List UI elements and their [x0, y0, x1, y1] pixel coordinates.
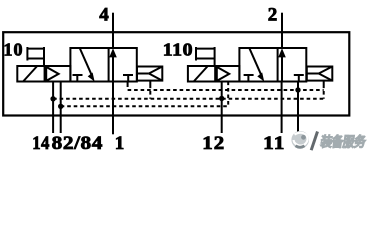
valve V110 right position: blocked port T [294, 74, 304, 76]
port 14 line [52, 82, 54, 134]
valve V110 left position: blocked port T [244, 74, 254, 76]
pilot dashed row 2 [53, 98, 324, 100]
label 12 [202, 133, 225, 154]
valve V110 air pilot return [307, 67, 333, 81]
port 1 line [112, 82, 114, 135]
svg-text:10: 10 [4, 40, 24, 60]
node on port 82/84 line [58, 104, 63, 109]
valve V110 left position: diagonal arrow [249, 48, 261, 76]
valve V10 solenoid coil [17, 66, 44, 82]
valve V10 air pilot return [137, 67, 162, 81]
valve V110 supply line [281, 82, 283, 134]
svg-text:2: 2 [268, 5, 278, 26]
valve V10 left position: diagonal arrow [80, 48, 92, 76]
pilot line V10 return drop [149, 81, 151, 85]
label 14 [32, 132, 50, 153]
valve V110 manual override [195, 47, 197, 61]
svg-text:12: 12 [202, 133, 225, 154]
valve V110 body [239, 48, 306, 82]
valve V10 left position: blocked port T [73, 74, 83, 76]
valve V110 solenoid coil [188, 66, 215, 82]
label 11 [263, 133, 285, 154]
valve V10 right position: blocked port T [123, 74, 133, 76]
svg-text:82/84: 82/84 [52, 133, 103, 154]
valve V110 pilot box [215, 66, 239, 82]
pilot dashed row 1 [128, 89, 324, 91]
svg-text:4: 4 [99, 5, 109, 26]
pilot dashed row 3 [61, 105, 229, 107]
pilot line V110 return drop [323, 81, 325, 85]
label 82/84 [52, 133, 103, 154]
port 2 line [281, 13, 283, 48]
valve V10 right position: flow arrow up [112, 55, 114, 82]
watermark logo [291, 131, 367, 150]
port 11 line [297, 82, 299, 135]
node on port 12 line [219, 96, 224, 101]
enclosure border [3, 32, 349, 115]
node on port 11 line [295, 87, 300, 92]
label 110 [163, 40, 193, 60]
valve V10 body [70, 48, 136, 82]
svg-text:11: 11 [263, 133, 285, 154]
svg-text:装备服务: 装备服务 [319, 134, 367, 150]
svg-text:1: 1 [115, 133, 125, 154]
port 82/84 line [60, 82, 62, 134]
valve V110 right position: flow arrow up [281, 55, 283, 82]
node on port 14 line [50, 96, 55, 101]
port 12 line [221, 82, 223, 134]
pilot tick under V10 exhaust [127, 82, 129, 88]
valve V10 pilot box [45, 66, 71, 82]
port 4 line [112, 13, 114, 48]
svg-text:110: 110 [163, 40, 193, 60]
pilot line V110 solenoid drop [227, 82, 229, 107]
valve V10 manual override [26, 47, 28, 61]
svg-text:14: 14 [32, 132, 50, 153]
